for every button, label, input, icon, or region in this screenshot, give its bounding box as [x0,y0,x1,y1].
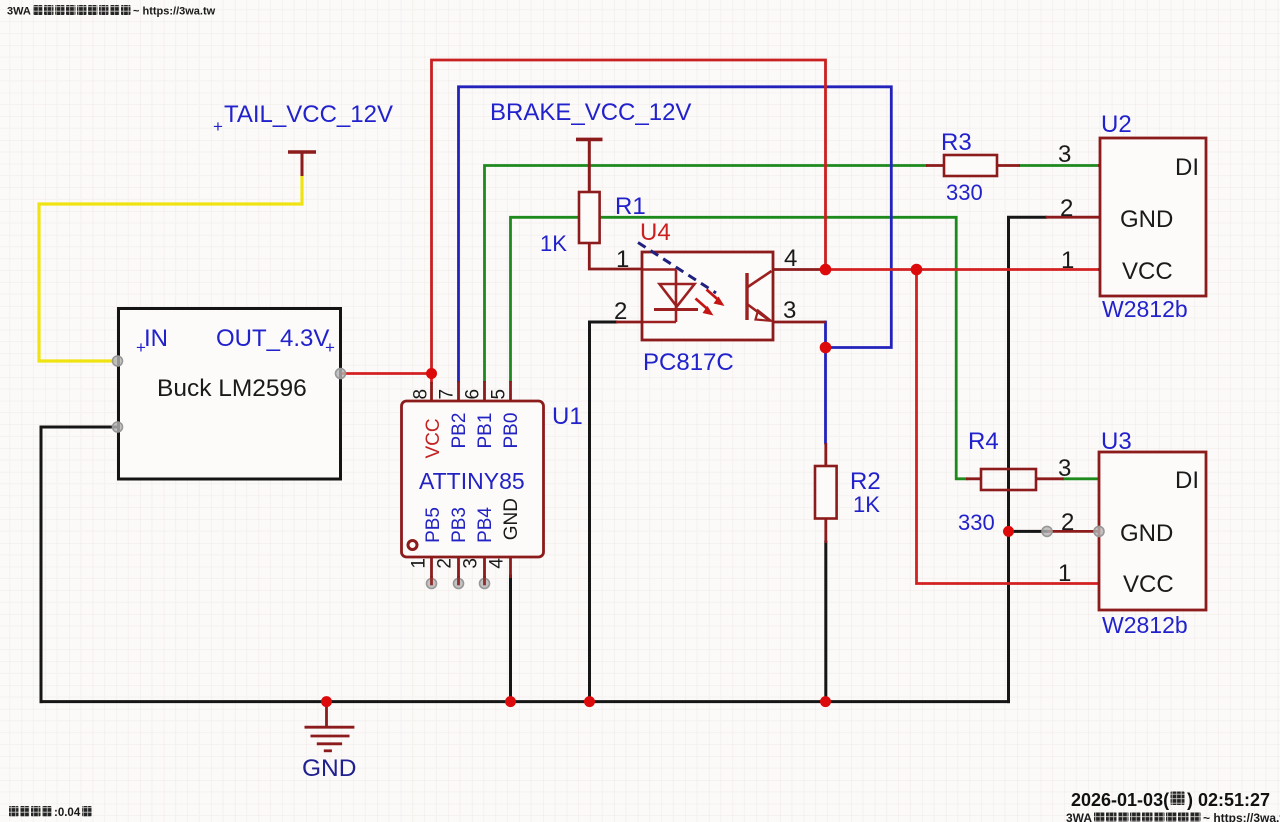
svg-text:U1: U1 [552,403,583,430]
svg-text:Buck LM2596: Buck LM2596 [157,375,307,402]
svg-text:4: 4 [487,558,508,569]
svg-text:330: 330 [946,180,983,205]
LED module U3 W2812b [1047,452,1206,610]
svg-text:PC817C: PC817C [643,349,734,376]
svg-text:8: 8 [411,389,432,400]
svg-text:3WA: 3WA [1066,811,1092,822]
svg-text:R2: R2 [850,468,881,495]
svg-text:2: 2 [435,558,456,569]
opto transistor [747,271,772,321]
svg-text:DI: DI [1175,154,1199,181]
junction R2 on bus [820,696,831,707]
svg-text:1K: 1K [853,492,880,517]
watermark timestamp bottom-right [1071,790,1270,810]
svg-text:PB2: PB2 [449,413,470,449]
resistor R1 [579,192,642,269]
wire green net PB1: ATTINY pin6 up, right to R3 left lead [485,166,927,382]
watermark bottom-right site [1066,811,1280,822]
svg-text:5: 5 [489,389,510,400]
svg-text:PB4: PB4 [475,507,496,543]
svg-text:PB5: PB5 [423,507,444,543]
svg-text:3WA: 3WA [7,6,31,18]
svg-text:1: 1 [409,558,430,569]
svg-text:1: 1 [1058,560,1071,587]
svg-text:3: 3 [783,297,796,324]
svg-text:+: + [136,338,146,357]
pin dot Buck GND [113,422,123,432]
svg-text:7: 7 [437,389,458,400]
ground symbol GND [305,702,355,751]
U3 body [1099,452,1206,610]
svg-text:1: 1 [616,246,629,273]
wire red Buck OUT to junction [341,372,432,375]
svg-text:PB3: PB3 [449,507,470,543]
svg-text:W2812b: W2812b [1102,612,1188,638]
opto LED (anode/cathode) [643,270,698,323]
svg-text:6: 6 [463,389,484,400]
svg-text:2: 2 [1061,509,1074,536]
svg-text:~ https://3wa.tw: ~ https://3wa.tw [133,6,216,18]
junction opto pin3 / PB2 / R2 [820,342,832,354]
svg-text:OUT_4.3V: OUT_4.3V [216,325,329,352]
wire blue net PB2: ATTINY pin7 up, right, down, left to junction at opto pin3 [459,87,892,381]
svg-text:) 02:51:27: ) 02:51:27 [1187,790,1270,810]
svg-text:3: 3 [461,558,482,569]
wire green net PB0: ATTINY pin5 up, right, down, to R4 left lead [511,217,967,479]
svg-text:VCC: VCC [1122,258,1173,285]
pin dot U1 pin2 [454,579,464,589]
svg-text:+: + [213,117,223,136]
IC U1 ATTINY85 [402,381,544,586]
junction opto pin4 / 12V [820,264,832,276]
svg-text:+: + [325,338,335,357]
U2 body [1100,138,1206,296]
U1 pin1 indicator circle [408,541,417,550]
wire yellow TAIL_VCC net: power stub down, left, down, right to Buck IN [39,176,302,361]
svg-text:ATTINY85: ATTINY85 [419,468,525,494]
svg-text:1: 1 [1061,247,1074,274]
wire red junction down to ATTINY pin8 VCC [430,374,433,383]
resistor R4 (horizontal, transparent body) [966,469,1064,490]
U2 pin stubs [1046,166,1101,270]
svg-text:R4: R4 [968,428,999,455]
wire green R4 right lead to U3 DI pin3 [1064,477,1098,480]
junction VCC split to U2/U3 [911,264,923,276]
U1 pin stub tips over dots [432,576,485,585]
svg-text:IN: IN [144,325,168,352]
svg-text:GND: GND [1120,520,1173,547]
wire red VCC row to U2 pin1 [826,268,1099,271]
svg-text:TAIL_VCC_12V: TAIL_VCC_12V [224,101,393,128]
U1 body [402,401,544,557]
junction ground symbol on bus [321,696,332,707]
svg-text:U3: U3 [1101,428,1132,455]
svg-text:PB1: PB1 [475,413,496,449]
wire black R2 bottom lead to ground bus [824,542,827,702]
wire black riser to U2/U3 GND pins [1009,217,1046,701]
svg-text:GND: GND [302,755,356,782]
wire green R3 right lead to U2 DI pin3 [1020,164,1098,167]
watermark bottom-left [9,806,92,819]
wire red from junction down and right to U3 VCC pin1 [917,270,1099,584]
junction U3 GND branch [1003,526,1014,537]
svg-text:PB0: PB0 [501,413,522,449]
pin dot Buck OUT [336,369,346,379]
LED module U2 W2812b [1046,138,1207,296]
U1 pin stubs top [432,381,511,401]
svg-text:2: 2 [614,298,627,325]
U3 pin stubs [1047,479,1099,584]
svg-text:BRAKE_VCC_12V: BRAKE_VCC_12V [490,99,691,126]
wire black ground bus [41,700,1009,703]
svg-text:VCC: VCC [1123,571,1174,598]
svg-text:~ https://3wa.tw: ~ https://3wa.tw [1203,811,1280,822]
junction ATTINY GND on bus [505,696,516,707]
junction Buck OUT / VCC riser [426,368,437,379]
power flag BRAKE_VCC_12V [576,139,603,192]
svg-text:W2812b: W2812b [1102,296,1188,322]
opto U4 annotation dashed line [638,243,716,294]
svg-text:U2: U2 [1101,111,1132,138]
svg-text:2026-01-03(: 2026-01-03( [1071,790,1169,810]
pin dot U1 pin1 [427,579,437,589]
resistor R2 [815,443,837,543]
opto pin stubs [616,270,826,323]
U1 pin stubs bottom [432,557,511,586]
pin dot U1 pin3 [480,579,490,589]
wire black opto pin2 to ground bus [590,322,617,702]
optocoupler U4 PC817C body [642,252,773,340]
svg-text:VCC: VCC [423,418,444,458]
svg-text:R1: R1 [615,193,646,220]
svg-text:DI: DI [1175,467,1199,494]
pin dot U3 GND at body [1094,526,1104,536]
wire red top: from Buck OUT junction up, right, down to opto pin4 junction [432,60,826,374]
svg-text:3: 3 [1058,141,1071,168]
pin dot U3 GND wire end [1042,526,1052,536]
junction opto pin2 on bus [584,696,595,707]
svg-text:4: 4 [784,245,797,272]
svg-text:R3: R3 [941,129,972,156]
power flag TAIL_VCC_12V [288,152,316,176]
resistor R3 (horizontal) [926,155,1020,176]
svg-text:3: 3 [1058,455,1071,482]
svg-text:330: 330 [958,510,995,535]
svg-text:2: 2 [1060,195,1073,222]
pin dot Buck IN [113,356,123,366]
wire black branch to U3 GND pin2 [1009,530,1048,533]
svg-text:U4: U4 [640,219,671,246]
svg-text:GND: GND [501,498,522,540]
module Buck LM2596 [119,309,341,480]
opto light arrows (red) [696,290,725,316]
svg-text:GND: GND [1120,206,1173,233]
svg-text:1K: 1K [540,231,567,256]
wire black ATTINY pin4 GND down to bus [509,576,512,702]
wire black Buck GND pin left and down to ground bus [41,427,118,702]
svg-text::0.04: :0.04 [54,807,81,819]
watermark top-left [7,5,216,18]
wire blue opto pin3 corner down through junction to R2 top lead [824,322,827,443]
